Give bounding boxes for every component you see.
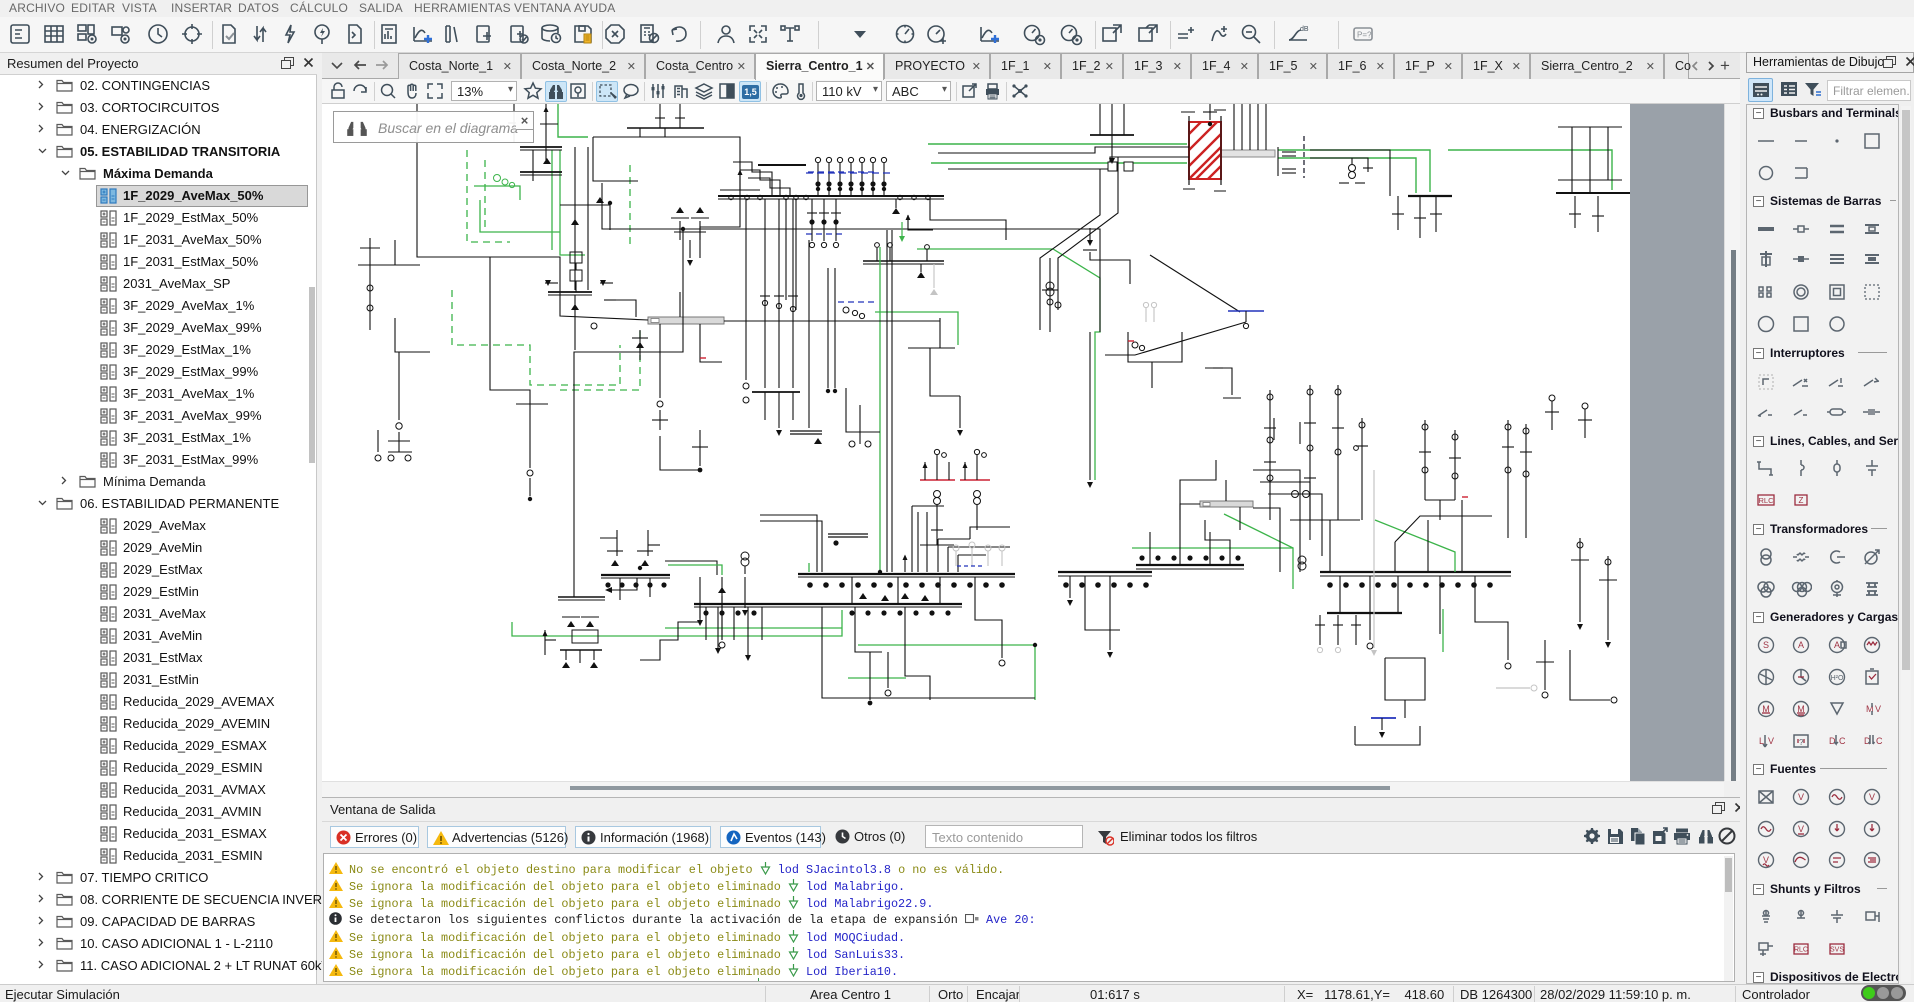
green wire gen cluster <box>474 186 520 200</box>
wire 3ph down <box>764 392 766 420</box>
svg-text:Z: Z <box>1799 496 1804 505</box>
wire tower 4 <box>1361 418 1363 520</box>
wire diag from blue bus <box>1105 322 1246 355</box>
wire diag right mid <box>1150 255 1240 312</box>
wire below B8 <box>1339 576 1341 613</box>
antenna cluster top <box>1273 418 1275 440</box>
blue dash over taps <box>806 172 890 174</box>
wire <box>395 318 430 352</box>
svg-text:SVS: SVS <box>1830 947 1844 954</box>
svg-text:H²O: H²O <box>1831 675 1844 682</box>
wire <box>1180 460 1216 500</box>
wire <box>1205 368 1232 395</box>
svg-text:RLC: RLC <box>1758 496 1774 505</box>
wire <box>959 396 961 428</box>
wire <box>1381 718 1383 730</box>
wire bottom right hooks <box>1385 658 1425 700</box>
long taps below B1 <box>764 199 766 388</box>
green dashed lower loop <box>452 290 620 385</box>
wire big loop <box>638 137 740 258</box>
svg-text:P=?: P=? <box>1357 31 1372 40</box>
wire <box>1570 650 1610 700</box>
wire series chain <box>570 252 582 263</box>
green corridor right lower <box>1278 158 1416 193</box>
wire G1 feeds <box>659 324 661 362</box>
sub taps below B1 <box>811 199 813 241</box>
green right far <box>1448 150 1612 190</box>
B1 junction circles <box>729 195 733 199</box>
bracket cluster right of G2 <box>1277 147 1279 176</box>
staircase feeds <box>1253 470 1300 520</box>
wire <box>689 240 691 258</box>
nested corners right <box>938 538 970 540</box>
wire taps B12 <box>876 248 878 261</box>
wire box upper <box>593 136 638 138</box>
wire <box>358 264 420 266</box>
wire right cluster <box>1579 538 1581 622</box>
green pair lower left a <box>665 627 842 629</box>
svg-text:dB: dB <box>1300 26 1309 33</box>
nested L b <box>760 521 822 572</box>
wire <box>529 478 531 496</box>
wire long left L <box>417 140 648 320</box>
grey busbar G2 <box>1221 150 1275 157</box>
wire corridor diag <box>1040 169 1100 330</box>
wire <box>516 403 548 405</box>
ghost components <box>955 551 957 566</box>
busbar B3 lower central bus <box>798 573 1015 575</box>
bottom small cluster <box>1319 615 1321 645</box>
busbar B4 lower left bus <box>601 574 670 576</box>
wire mid cluster2 <box>846 388 880 432</box>
wire tower 3 <box>1337 385 1339 520</box>
wire <box>593 137 638 181</box>
wire <box>1069 576 1071 598</box>
right small pair <box>1549 395 1555 401</box>
red bus transformers <box>934 491 941 498</box>
busbar B9 <box>1327 612 1402 614</box>
wire tower 2 <box>1309 385 1311 520</box>
wire top right loop <box>1558 126 1622 128</box>
component blobs on B3 <box>807 582 813 588</box>
wire corridor 1 <box>938 147 1189 153</box>
busbar B14 mid top <box>1090 134 1134 136</box>
wire <box>1397 196 1399 230</box>
gen cluster right <box>1292 491 1299 498</box>
terminal taps on B1 <box>817 163 819 196</box>
wire bus ticks1 <box>520 146 562 148</box>
transformer lowleft <box>741 552 749 560</box>
green wire center down <box>917 249 1100 480</box>
component pairs below B3 <box>859 593 867 599</box>
red tiny marks <box>700 357 706 359</box>
left arrow drop <box>612 578 637 590</box>
wire right of G2 <box>1310 150 1390 196</box>
blue bus bottom <box>1371 717 1396 719</box>
busbar B12 <box>863 260 944 262</box>
busbar B7 <box>1136 564 1244 566</box>
wire cluster A2 <box>398 352 400 420</box>
grey busbar G1 <box>648 317 724 324</box>
wire below G1 <box>659 362 661 398</box>
wire <box>699 430 701 466</box>
wire bus ticks3 <box>548 291 592 293</box>
wire arrows mid <box>545 282 558 284</box>
wire B3-B5 links <box>851 577 853 604</box>
ghost vertical <box>1373 470 1375 648</box>
busbar B2 <box>758 164 806 166</box>
wire <box>545 104 547 160</box>
load near B1 right <box>892 208 900 214</box>
green bottom small <box>848 677 906 679</box>
wire <box>1049 258 1051 332</box>
busbar B1 main upper bus <box>718 195 944 197</box>
wire <box>574 295 576 350</box>
wire left bottom cluster <box>619 578 621 600</box>
wire <box>560 204 610 206</box>
green spine vertical <box>879 247 881 572</box>
component blobs on B6 <box>1063 582 1069 588</box>
green right link <box>1132 548 1293 589</box>
wire stack <box>532 150 534 181</box>
wire <box>1395 516 1492 542</box>
svg-text:V: V <box>1798 792 1804 802</box>
busbar B10 top right bus <box>1408 195 1452 197</box>
green right vertical <box>1442 609 1444 652</box>
svg-text:C: C <box>1839 736 1846 746</box>
svg-text:V: V <box>1798 824 1804 834</box>
green wire mid2 <box>875 312 958 345</box>
busbar B15 small mid-left double <box>828 533 868 535</box>
wire <box>720 189 760 191</box>
wire G1 to right <box>724 320 940 322</box>
busbar B16 left small <box>790 430 822 432</box>
wire <box>1425 499 1455 501</box>
wire spine 1 <box>886 230 888 572</box>
wire <box>545 639 556 641</box>
wire <box>930 348 960 396</box>
green top entry <box>558 104 588 137</box>
ghost pair mid <box>1145 308 1147 322</box>
wire B7 feeds <box>1149 532 1151 565</box>
busbar B13 right top <box>1556 192 1630 194</box>
wire pair left <box>827 268 829 388</box>
busbar B8 lower right bus <box>1320 571 1511 573</box>
wire <box>1571 127 1573 193</box>
svg-text:C: C <box>1876 736 1883 746</box>
wire bottom right cluster <box>1544 640 1546 690</box>
wire <box>1085 576 1120 630</box>
wire twin masts <box>1507 420 1509 538</box>
green dashed region outline 2 <box>484 160 486 230</box>
wire top small cluster2 <box>1209 104 1211 120</box>
wire cluster right triangles <box>676 207 684 213</box>
red bus segment <box>920 479 955 481</box>
wire <box>975 577 1002 658</box>
black staircase <box>640 607 700 660</box>
svg-text:?: ? <box>1799 738 1804 747</box>
green dashed region outline <box>467 150 510 242</box>
svg-text:D: D <box>1829 736 1836 746</box>
green corridor right upper <box>1278 150 1430 192</box>
B4 right link <box>665 561 717 575</box>
wire <box>659 104 661 128</box>
svg-text:S: S <box>1763 640 1769 650</box>
blue bus right mid <box>1228 310 1264 312</box>
circles stack top <box>843 307 849 313</box>
svg-text:V: V <box>1869 792 1875 802</box>
component blobs on B5 <box>703 610 708 615</box>
wire <box>869 652 871 700</box>
wire top stub <box>416 104 418 140</box>
component blobs on B8 <box>1327 582 1333 588</box>
wire bracket <box>1355 726 1420 745</box>
blue dashed marker 3 <box>838 301 874 303</box>
grey busbar G3 <box>1200 501 1253 507</box>
green wire left <box>480 200 560 232</box>
wire bottom long <box>822 607 1035 698</box>
wire left descender <box>808 240 810 428</box>
wire <box>1111 135 1113 158</box>
wire <box>1223 397 1241 399</box>
wire <box>930 197 1006 240</box>
wire <box>970 527 1010 539</box>
ticks stack <box>760 295 770 297</box>
svg-text:V: V <box>1768 736 1774 746</box>
misc blobs <box>681 227 685 231</box>
busbar B6 <box>1058 571 1152 573</box>
green dashed lower loop2 <box>560 330 640 390</box>
busbar B11 top small <box>627 127 704 129</box>
red bus taps up <box>924 462 926 480</box>
wire left of G3 <box>1180 504 1200 520</box>
green corridor line 2 <box>931 162 1187 164</box>
wire <box>743 383 749 389</box>
wire corridor 2 <box>948 157 1189 169</box>
wire left spine <box>574 229 683 597</box>
wire <box>1404 700 1406 718</box>
wire <box>1475 576 1508 660</box>
svg-text:V: V <box>1875 704 1881 714</box>
wire <box>639 128 641 137</box>
wire cluster A <box>369 238 371 330</box>
wire <box>639 330 641 360</box>
ghost blue dash <box>957 565 982 567</box>
component tri <box>543 158 551 164</box>
red hatched outage block <box>1181 110 1226 191</box>
wire hub <box>1290 519 1360 521</box>
wire <box>660 436 700 470</box>
wire right mid vert <box>1089 332 1091 480</box>
nested L a <box>760 515 817 572</box>
wire above red box <box>1233 104 1235 150</box>
green diag right 2 <box>1375 520 1455 572</box>
wire hub right <box>1128 332 1182 362</box>
wire mid right lower <box>1205 520 1230 565</box>
wire lower-left island <box>562 616 580 618</box>
wire right chains <box>1424 420 1426 500</box>
wire tower 1 <box>1269 390 1271 520</box>
B5 left taps <box>705 607 707 640</box>
green diag right <box>1224 514 1293 548</box>
wire long right <box>602 183 1100 332</box>
bus 3ph <box>752 391 800 393</box>
busbar B5 <box>694 603 962 605</box>
wire mid-left wander <box>490 257 530 404</box>
transformer mid <box>1046 282 1054 290</box>
green generator g1 <box>494 175 501 182</box>
blue dashed marker 2 <box>806 233 842 235</box>
wire <box>388 440 410 442</box>
wire <box>610 300 636 317</box>
wire top mid cluster <box>1099 104 1101 135</box>
svg-text:RLC: RLC <box>1794 947 1808 954</box>
green corridor line 1 <box>928 143 1187 145</box>
red bus down <box>936 505 938 545</box>
wire spine 2 <box>891 230 893 572</box>
wire <box>1394 542 1396 572</box>
wire below B5 loops <box>855 607 882 652</box>
green cluster stack <box>551 150 553 250</box>
transformer pair near G2 <box>1349 165 1356 172</box>
ghost arrow <box>1496 687 1530 689</box>
wire <box>377 430 379 452</box>
wire <box>540 123 558 125</box>
B4 upper components <box>611 560 619 566</box>
wire corridor diag2 <box>1058 157 1118 310</box>
green stub B3 <box>808 563 810 572</box>
blue dashed marker 1 <box>808 171 876 173</box>
wire mid-bottom tails <box>699 577 701 618</box>
wire G3 connect <box>1225 480 1227 501</box>
component blobs on B7 <box>1139 555 1144 560</box>
switch boxes on corridor <box>1108 162 1117 171</box>
wire <box>513 104 515 142</box>
wire group to B3 <box>912 505 944 507</box>
component blobs on B4 <box>605 582 610 587</box>
svg-text:A: A <box>1798 640 1804 650</box>
ticks under B10 <box>1392 213 1404 215</box>
svg-text:A: A <box>1834 640 1840 650</box>
green lower mid <box>858 645 1035 700</box>
green pair lower left b <box>512 610 842 636</box>
staircase into B1 <box>748 178 790 196</box>
wire bus ticks2 <box>520 171 562 173</box>
transformer 4 <box>1298 556 1306 564</box>
arrow cluster mid <box>1087 240 1093 246</box>
